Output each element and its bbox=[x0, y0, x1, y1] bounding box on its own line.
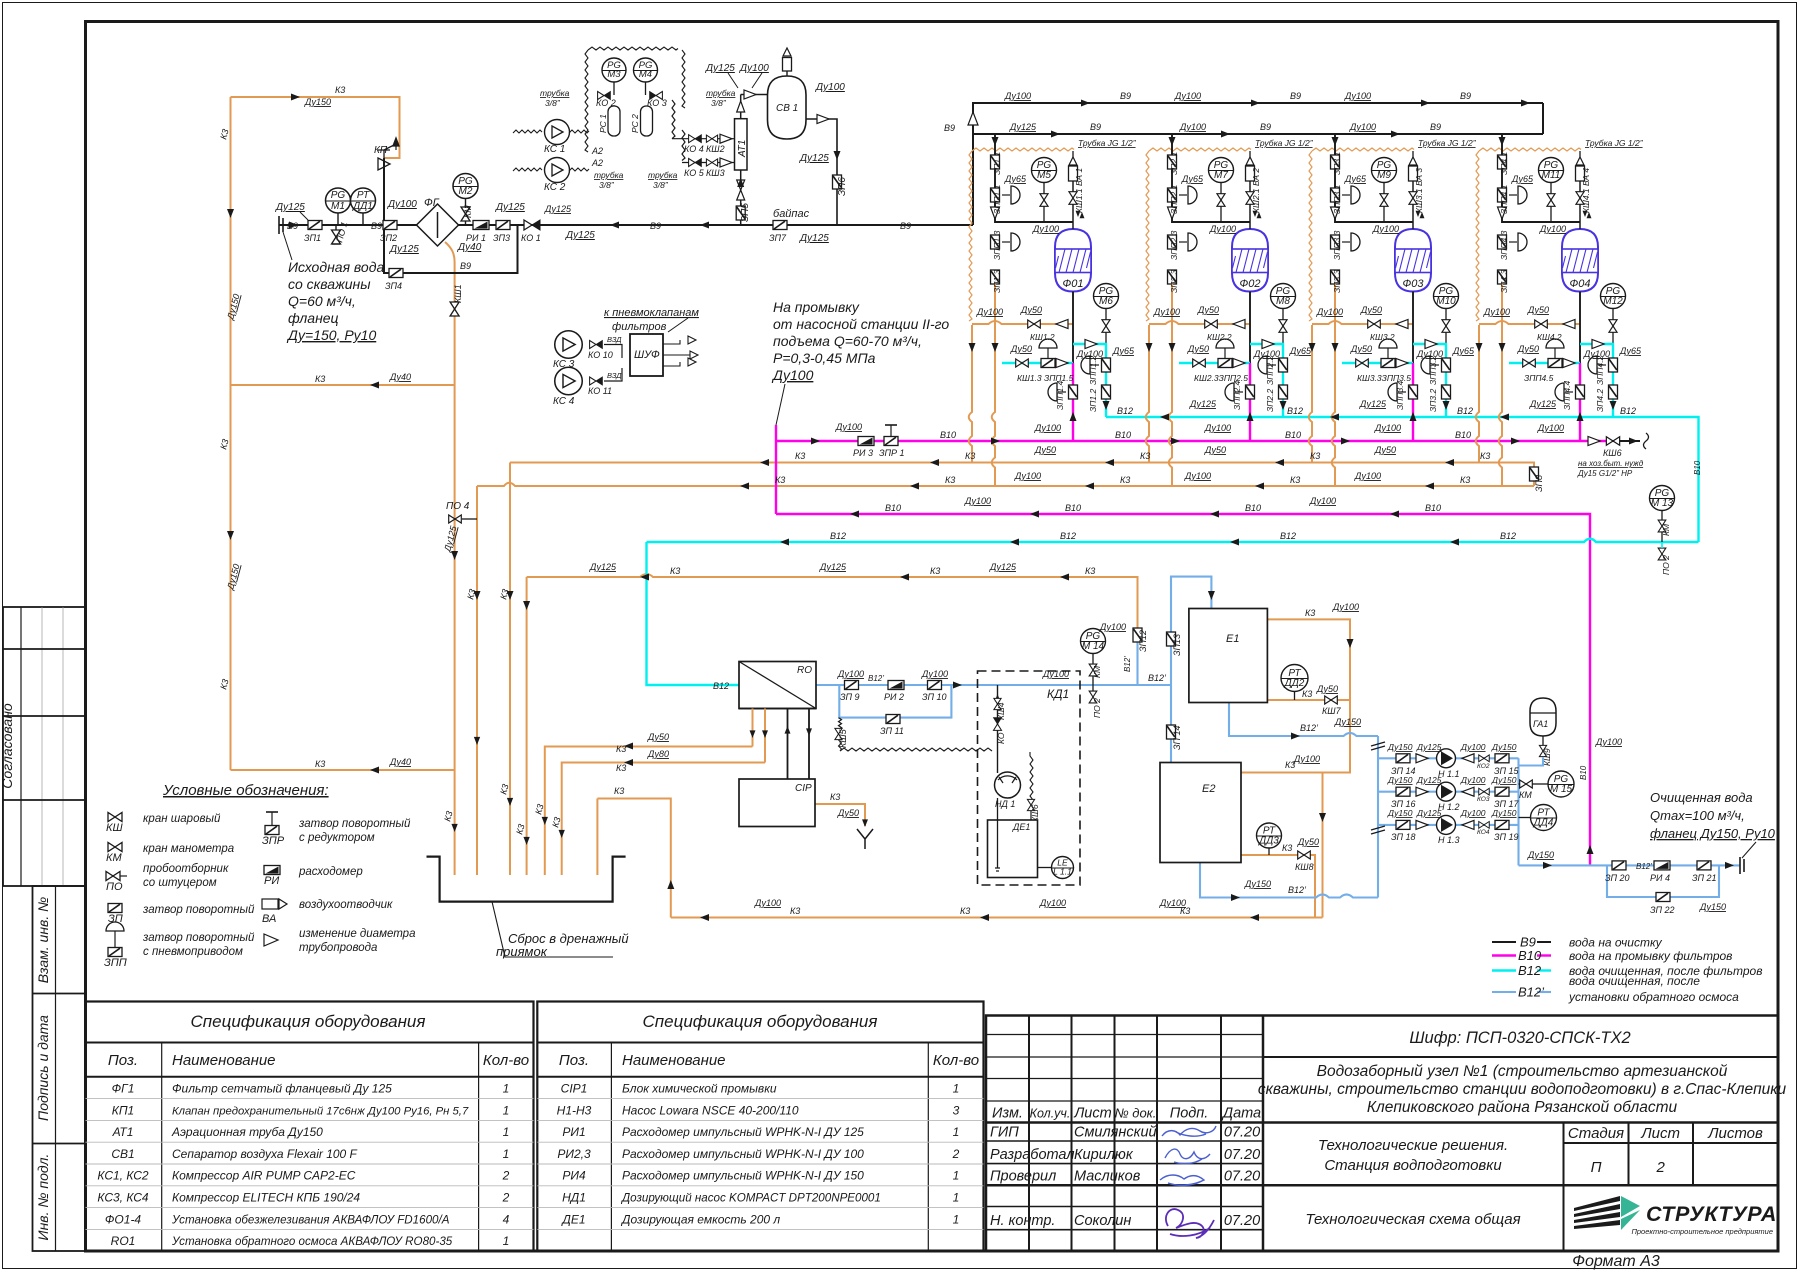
wire B12' ZP12 drop bbox=[1136, 641, 1138, 685]
svg-text:Ду100: Ду100 bbox=[964, 496, 991, 506]
svg-text:RO: RO bbox=[797, 665, 812, 676]
svg-text:К3: К3 bbox=[960, 906, 970, 916]
node outlet flange bbox=[1740, 857, 1744, 874]
svg-text:1: 1 bbox=[953, 1212, 960, 1226]
svg-text:ЗП7: ЗП7 bbox=[769, 233, 787, 243]
svg-text:В9: В9 bbox=[1260, 122, 1271, 132]
svg-text:Ду125: Ду125 bbox=[1529, 399, 1557, 409]
svg-text:В9: В9 bbox=[1430, 122, 1441, 132]
svg-text:Станция водподготовки: Станция водподготовки bbox=[1324, 1157, 1502, 1174]
svg-text:фланец Ду150, Ру10: фланец Ду150, Ру10 bbox=[1650, 826, 1776, 841]
wire B12' pump row 3 bbox=[1378, 824, 1519, 826]
svg-text:со скважины: со скважины bbox=[288, 276, 371, 292]
svg-text:ЗП1: ЗП1 bbox=[304, 233, 321, 243]
svg-text:Лист: Лист bbox=[1640, 1125, 1680, 1142]
svg-text:Ду50: Ду50 bbox=[1034, 445, 1056, 455]
svg-text:подъема Q=60-70 м³/ч,: подъема Q=60-70 м³/ч, bbox=[773, 333, 922, 349]
svg-text:КО 11: КО 11 bbox=[588, 386, 612, 396]
svg-text:В12: В12 bbox=[1457, 406, 1473, 416]
svg-text:ДД2: ДД2 bbox=[1284, 678, 1305, 689]
filter group Ф02 bbox=[1146, 134, 1314, 486]
svg-text:В12’: В12’ bbox=[868, 674, 884, 683]
svg-text:Ду100: Ду100 bbox=[1204, 423, 1231, 433]
svg-text:К3: К3 bbox=[930, 566, 940, 576]
svg-text:ЗП4: ЗП4 bbox=[385, 281, 402, 291]
valve ZP11 bbox=[886, 715, 900, 724]
svg-text:Компрессор AIR PUMP CAP2-ЕС: Компрессор AIR PUMP CAP2-ЕС bbox=[172, 1169, 356, 1183]
svg-text:М 14: М 14 bbox=[1082, 641, 1105, 652]
svg-text:трубопровода: трубопровода bbox=[299, 942, 377, 954]
svg-text:ЗПП1.3: ЗПП1.3 bbox=[992, 230, 1002, 260]
svg-text:В12’: В12’ bbox=[1123, 656, 1132, 672]
lower block bbox=[33, 886, 86, 1251]
svg-text:Е1: Е1 bbox=[1226, 633, 1239, 645]
svg-text:ПО 2: ПО 2 bbox=[1092, 698, 1102, 718]
svg-text:Инв. № подл.: Инв. № подл. bbox=[35, 1154, 51, 1241]
check valve KO1 bbox=[524, 220, 540, 230]
svg-text:1: 1 bbox=[503, 1082, 510, 1096]
svg-text:1: 1 bbox=[953, 1191, 960, 1205]
wire B9 header right connector bbox=[1542, 103, 1544, 134]
wire K3 Du125 y577 bbox=[527, 574, 1138, 629]
svg-text:К3: К3 bbox=[945, 475, 955, 485]
svg-text:Ду150: Ду150 bbox=[1699, 902, 1726, 912]
svg-text:ЗП1.2: ЗП1.2 bbox=[1088, 389, 1098, 412]
svg-text:КС1, КС2: КС1, КС2 bbox=[97, 1169, 149, 1183]
svg-text:Ду150: Ду150 bbox=[304, 97, 331, 107]
svg-text:трубка: трубка bbox=[648, 170, 678, 180]
svg-text:воздухоотводчик: воздухоотводчик bbox=[299, 899, 393, 911]
wire VZD links bbox=[604, 345, 622, 382]
svg-text:КО 5: КО 5 bbox=[684, 168, 705, 178]
gauge PG M2 bbox=[465, 198, 467, 208]
valve ZP15 bbox=[1495, 754, 1509, 763]
svg-text:трубка: трубка bbox=[706, 88, 736, 98]
svg-text:КШ2.1 ВА 2: КШ2.1 ВА 2 bbox=[1251, 168, 1261, 213]
svg-text:Насос Lowara NSCE 40-200/110: Насос Lowara NSCE 40-200/110 bbox=[622, 1103, 799, 1117]
svg-text:ГА1: ГА1 bbox=[1533, 719, 1548, 729]
wire arrows K3 y486 bbox=[740, 483, 1434, 490]
svg-text:КД1: КД1 bbox=[1047, 687, 1069, 701]
svg-text:Ду150: Ду150 bbox=[1244, 879, 1271, 889]
valve ZP9 bbox=[845, 681, 859, 690]
svg-text:РИ: РИ bbox=[264, 875, 279, 887]
svg-text:В9: В9 bbox=[900, 221, 911, 231]
pump row 1: valve ZP14 bbox=[1396, 754, 1410, 763]
wire B9 header lower bbox=[973, 133, 1543, 135]
svg-text:Ду100: Ду100 bbox=[1293, 754, 1320, 764]
sampler PO2 bbox=[1092, 685, 1094, 691]
svg-text:КС 1: КС 1 bbox=[544, 144, 565, 155]
svg-text:ПО 4: ПО 4 bbox=[446, 501, 470, 512]
svg-text:Расходомер импульсный WPHK-N-I: Расходомер импульсный WPHK-N-I ДУ 150 bbox=[622, 1169, 864, 1183]
svg-text:КШ: КШ bbox=[106, 822, 123, 834]
svg-text:В10: В10 bbox=[940, 430, 956, 440]
svg-text:Ду100: Ду100 bbox=[1460, 808, 1486, 818]
svg-text:К3: К3 bbox=[965, 451, 975, 461]
vessel PC1 bbox=[608, 106, 620, 136]
svg-text:Масликов: Масликов bbox=[1074, 1169, 1141, 1185]
valve KM bbox=[1089, 664, 1097, 676]
wire B9 inlet main bbox=[279, 224, 973, 226]
svg-text:Ду150: Ду150 bbox=[1527, 850, 1554, 860]
legend КМ bbox=[108, 843, 122, 852]
svg-text:Ду125: Ду125 bbox=[819, 562, 847, 572]
legend КШ bbox=[108, 813, 122, 822]
wire B12 cyan headers bbox=[647, 417, 1699, 685]
svg-text:НД1: НД1 bbox=[562, 1191, 586, 1205]
flowmeter RI3 bbox=[858, 437, 874, 446]
filter group Ф04 bbox=[1476, 134, 1644, 486]
flowmeter RI4 bbox=[1654, 861, 1670, 870]
gauge PG M4 bbox=[634, 58, 658, 82]
svg-text:РТ: РТ bbox=[357, 190, 370, 201]
gauge PG M14 bbox=[1081, 629, 1106, 654]
svg-text:CIP: CIP bbox=[795, 783, 812, 794]
svg-text:Спецификация оборудования: Спецификация оборудования bbox=[643, 1012, 878, 1031]
svg-text:ЗПП3.2: ЗПП3.2 bbox=[1428, 355, 1438, 385]
svg-text:В12: В12 bbox=[1287, 406, 1303, 416]
svg-text:кран манометра: кран манометра bbox=[143, 843, 234, 855]
svg-text:В9: В9 bbox=[371, 221, 382, 231]
aeration tube AT1 bbox=[735, 119, 748, 170]
level sensor LE L1.1 bbox=[1052, 857, 1074, 879]
svg-text:ЗПР 1: ЗПР 1 bbox=[879, 448, 905, 458]
svg-text:Ду150: Ду150 bbox=[1387, 742, 1413, 752]
svg-text:В12: В12 bbox=[830, 531, 846, 541]
svg-text:КШ1.1 ВА 1: КШ1.1 ВА 1 bbox=[1074, 168, 1084, 213]
wire dosing discharge bbox=[997, 685, 999, 773]
svg-text:ЗПП: ЗПП bbox=[104, 957, 127, 969]
wire K3 E2 right upper bbox=[1241, 773, 1323, 918]
svg-text:ФГ1: ФГ1 bbox=[112, 1082, 135, 1096]
svg-text:1: 1 bbox=[953, 1082, 960, 1096]
panel zigzag box bbox=[588, 47, 678, 50]
svg-text:Ду50: Ду50 bbox=[1374, 445, 1396, 455]
svg-text:В10: В10 bbox=[1693, 460, 1702, 475]
svg-text:Расходомер импульсный WPHK-N-I: Расходомер импульсный WPHK-N-I ДУ 100 bbox=[622, 1147, 864, 1161]
svg-text:ЗП3: ЗП3 bbox=[493, 233, 510, 243]
svg-text:В12: В12 bbox=[1518, 963, 1542, 978]
wire K3 drain vertical x510 bbox=[509, 463, 511, 876]
valve ZP14v bbox=[1167, 725, 1176, 739]
svg-text:ЗПП1.1: ЗПП1.1 bbox=[992, 184, 1002, 214]
svg-text:пробоотборник: пробоотборник bbox=[143, 863, 229, 875]
svg-text:Ду100: Ду100 bbox=[1354, 471, 1381, 481]
valve KSh4 bbox=[994, 698, 1001, 709]
valve ZP5 bbox=[736, 206, 745, 220]
check valve KO4p bbox=[1479, 822, 1490, 829]
svg-text:ШУФ: ШУФ bbox=[634, 349, 660, 361]
valve ZP20 bbox=[1612, 861, 1626, 870]
svg-text:В10: В10 bbox=[1065, 503, 1081, 513]
svg-text:В9: В9 bbox=[1460, 91, 1471, 101]
svg-text:фланец: фланец bbox=[288, 310, 339, 326]
valve KSh6 bbox=[1027, 799, 1034, 810]
svg-text:Технологические решения.: Технологические решения. bbox=[1318, 1137, 1508, 1154]
wire B12' RO outlet bbox=[816, 684, 1171, 686]
svg-text:Кирилюк: Кирилюк bbox=[1074, 1147, 1134, 1163]
svg-text:ДД4: ДД4 bbox=[1533, 818, 1554, 829]
svg-text:РИ 2: РИ 2 bbox=[884, 692, 904, 702]
svg-text:М 15: М 15 bbox=[1550, 784, 1573, 795]
svg-text:В9: В9 bbox=[1120, 91, 1131, 101]
wire chemical hose to ND1 bbox=[839, 740, 993, 751]
svg-text:затвор поворотный: затвор поворотный bbox=[142, 904, 255, 916]
svg-text:ЗПП2.3: ЗПП2.3 bbox=[1169, 230, 1179, 260]
svg-text:В9: В9 bbox=[944, 123, 955, 133]
svg-text:2: 2 bbox=[502, 1191, 510, 1205]
svg-text:М7: М7 bbox=[1214, 170, 1228, 181]
svg-text:Ду100: Ду100 bbox=[835, 422, 862, 432]
svg-text:К3: К3 bbox=[1310, 451, 1320, 461]
wire arrows K3 y577 bbox=[640, 574, 1069, 581]
valve ZP6 bbox=[833, 175, 842, 189]
svg-text:Технологическая схема общая: Технологическая схема общая bbox=[1305, 1211, 1520, 1228]
svg-text:ЗПП3.1: ЗПП3.1 bbox=[1332, 184, 1342, 214]
svg-text:М 13: М 13 bbox=[1651, 498, 1674, 509]
svg-text:В10: В10 bbox=[1115, 430, 1131, 440]
svg-text:М2: М2 bbox=[459, 186, 473, 197]
signatures bbox=[1160, 1126, 1216, 1185]
svg-text:ВЗД: ВЗД bbox=[607, 371, 622, 380]
svg-text:К3: К3 bbox=[1480, 451, 1490, 461]
gauge PG M3 bbox=[602, 58, 626, 82]
svg-text:Ду100: Ду100 bbox=[1332, 602, 1359, 612]
svg-text:Ду100: Ду100 bbox=[1537, 423, 1564, 433]
svg-text:Ду125: Ду125 bbox=[589, 562, 617, 572]
svg-text:В10: В10 bbox=[1245, 503, 1261, 513]
wire K3 drain vertical x477 bbox=[476, 486, 478, 875]
wire K3 E1 right upper bbox=[1267, 619, 1350, 700]
wire SV1 outlet bbox=[806, 119, 837, 225]
vessel PC2 bbox=[641, 106, 653, 136]
wire B9 riser to headers bbox=[973, 103, 1543, 225]
svg-text:Блок химической промывки: Блок химической промывки bbox=[622, 1082, 777, 1096]
svg-text:КШ8: КШ8 bbox=[1295, 862, 1314, 872]
svg-text:Ду125: Ду125 bbox=[1009, 122, 1037, 132]
pump row 2: valve ZP16 bbox=[1396, 787, 1410, 796]
wire B12' outlet line bbox=[1519, 864, 1741, 866]
svg-text:Ду40: Ду40 bbox=[389, 372, 411, 382]
wire hose KS1 bbox=[513, 130, 589, 133]
svg-text:ЗПП4.2: ЗПП4.2 bbox=[1595, 355, 1605, 385]
svg-text:Н. контр.: Н. контр. bbox=[990, 1213, 1055, 1229]
svg-text:Установка обратного осмоса АКВ: Установка обратного осмоса АКВАФЛОУ RO80… bbox=[171, 1235, 453, 1248]
wire K3 main drain y917 bbox=[671, 917, 1323, 919]
svg-text:Ду100: Ду100 bbox=[1039, 898, 1066, 908]
legend ВА bbox=[262, 899, 278, 909]
svg-text:Ф01: Ф01 bbox=[1063, 278, 1084, 290]
valve ZP21 bbox=[1697, 861, 1711, 870]
svg-text:Ду100: Ду100 bbox=[1004, 91, 1031, 101]
svg-text:АТ1: АТ1 bbox=[112, 1125, 134, 1139]
svg-text:Ду125: Ду125 bbox=[389, 244, 419, 255]
wire outputs bbox=[663, 340, 690, 366]
svg-text:К3: К3 bbox=[1302, 689, 1312, 699]
svg-text:2: 2 bbox=[952, 1147, 960, 1161]
svg-text:В12’: В12’ bbox=[1148, 673, 1167, 683]
svg-text:ЗПП4.1: ЗПП4.1 bbox=[1499, 184, 1509, 214]
svg-text:КШ1: КШ1 bbox=[453, 284, 463, 303]
svg-text:1: 1 bbox=[953, 1169, 960, 1183]
svg-text:КО 10: КО 10 bbox=[588, 350, 613, 360]
sampler PO2b bbox=[1658, 548, 1666, 560]
svg-text:Ду40: Ду40 bbox=[457, 242, 482, 253]
svg-text:PG: PG bbox=[331, 190, 346, 201]
wire RO to CIP links bbox=[753, 709, 766, 763]
svg-text:РИ4: РИ4 bbox=[562, 1169, 586, 1183]
pump row 3: valve ZP18 bbox=[1396, 820, 1410, 829]
wire arrows drain y917 bbox=[700, 914, 1259, 921]
wire B12' E2 feed bbox=[1170, 685, 1172, 763]
valve KSh8 bbox=[1298, 851, 1311, 859]
svg-text:затвор поворотный: затвор поворотный bbox=[298, 818, 411, 830]
valve KSh3 bbox=[706, 159, 717, 166]
svg-text:3/8”: 3/8” bbox=[711, 98, 727, 108]
svg-text:ЗПР: ЗПР bbox=[262, 835, 285, 847]
svg-text:Условные обозначения:: Условные обозначения: bbox=[162, 782, 329, 799]
svg-text:07.20: 07.20 bbox=[1224, 1125, 1260, 1141]
logo СТРУКТУРА bbox=[1574, 1196, 1777, 1236]
svg-text:Поз.: Поз. bbox=[559, 1052, 589, 1069]
svg-text:К3: К3 bbox=[1460, 475, 1470, 485]
svg-text:В10: В10 bbox=[1579, 765, 1588, 780]
svg-text:№ док.: № док. bbox=[1115, 1106, 1157, 1121]
wire K3 drain to pit bbox=[597, 799, 670, 918]
svg-text:КШ3: КШ3 bbox=[706, 168, 725, 178]
pump H1.3 bbox=[1437, 815, 1456, 834]
wire air to AT1 row1 bbox=[672, 100, 735, 139]
valve KSh9 bbox=[1542, 736, 1544, 745]
wire B12' pump discharge manifold bbox=[1517, 758, 1519, 865]
svg-text:Ду150: Ду150 bbox=[1491, 775, 1517, 785]
wire B12' outlet bypass ZP22 bbox=[1607, 865, 1719, 897]
svg-text:РС 2: РС 2 bbox=[630, 114, 640, 133]
svg-text:В12: В12 bbox=[1620, 406, 1636, 416]
svg-text:КМ: КМ bbox=[106, 852, 122, 864]
svg-text:Ду50: Ду50 bbox=[837, 808, 859, 818]
svg-text:Наименование: Наименование bbox=[622, 1052, 726, 1069]
svg-text:К3: К3 bbox=[775, 475, 785, 485]
wire AT1 top bbox=[740, 95, 742, 119]
svg-text:Ду100: Ду100 bbox=[815, 82, 845, 93]
svg-text:К3: К3 bbox=[795, 451, 805, 461]
svg-text:байпас: байпас bbox=[773, 208, 810, 220]
svg-text:Ду80: Ду80 bbox=[647, 749, 669, 759]
valve KM on FG bbox=[465, 220, 467, 225]
valve ZP22 bbox=[1656, 893, 1670, 902]
svg-text:ЗП 14: ЗП 14 bbox=[1172, 725, 1182, 750]
svg-text:Q=60 м³/ч,: Q=60 м³/ч, bbox=[288, 293, 356, 309]
svg-text:К3: К3 bbox=[1290, 475, 1300, 485]
svg-text:В9: В9 bbox=[287, 221, 298, 231]
svg-text:Кол-во: Кол-во bbox=[933, 1052, 979, 1069]
svg-text:РИ 4: РИ 4 bbox=[1650, 873, 1670, 883]
filter group Ф03 bbox=[1309, 134, 1477, 486]
svg-text:ЗП3.3: ЗП3.3 bbox=[1332, 270, 1342, 293]
svg-text:Ду15 G1/2” НР: Ду15 G1/2” НР bbox=[1577, 469, 1633, 478]
valve ZPR1 bbox=[884, 437, 898, 446]
safety valve KP1 bbox=[378, 138, 399, 170]
svg-text:4: 4 bbox=[503, 1212, 510, 1226]
check valve KO bbox=[994, 718, 1002, 731]
svg-text:P=0,3-0,45 МПа: P=0,3-0,45 МПа bbox=[773, 350, 876, 366]
svg-text:расходомер: расходомер bbox=[298, 866, 363, 878]
dosing tank DE1 bbox=[988, 820, 1038, 878]
svg-text:КШ1.3 ЗПП1.5: КШ1.3 ЗПП1.5 bbox=[1017, 373, 1074, 383]
svg-text:Компрессор ELITECH КПБ 190/24: Компрессор ELITECH КПБ 190/24 bbox=[172, 1191, 360, 1205]
svg-text:Н 1.3: Н 1.3 bbox=[1438, 835, 1460, 845]
svg-text:В12’: В12’ bbox=[1300, 723, 1319, 733]
compressor KS3 bbox=[555, 331, 583, 359]
dosing box KD1 dashed bbox=[978, 671, 1081, 885]
svg-text:КС3, КС4: КС3, КС4 bbox=[97, 1191, 149, 1205]
svg-text:КШ4.2: КШ4.2 bbox=[1537, 332, 1562, 342]
svg-text:Клапан предохранительный 17с6н: Клапан предохранительный 17с6нж Ду100 Ру… bbox=[172, 1105, 469, 1117]
svg-text:КО2: КО2 bbox=[1477, 763, 1490, 770]
svg-text:07.20: 07.20 bbox=[1224, 1147, 1260, 1163]
wire B12' light blue network bbox=[816, 577, 1740, 898]
wire K3 Du40 bottom bbox=[231, 769, 455, 771]
svg-text:Формат А3: Формат А3 bbox=[1572, 1253, 1660, 1270]
wire B12' pump row 2 bbox=[1378, 791, 1519, 793]
wire K3 E1 right lower KSh7 bbox=[1267, 700, 1350, 773]
svg-text:Согласовано: Согласовано bbox=[0, 703, 15, 789]
svg-text:ЗП4.3: ЗП4.3 bbox=[1499, 270, 1509, 293]
tank E2 bbox=[1160, 763, 1241, 863]
svg-text:ЗП2: ЗП2 bbox=[380, 233, 397, 243]
svg-text:Ду100: Ду100 bbox=[1595, 737, 1622, 747]
svg-text:Ду150: Ду150 bbox=[1491, 742, 1517, 752]
svg-text:3/8”: 3/8” bbox=[599, 180, 615, 190]
legend reducer bbox=[264, 934, 278, 946]
svg-text:вода очищенная, после: вода очищенная, после bbox=[1569, 974, 1700, 988]
wire K3 left riser Du150 bbox=[230, 97, 232, 770]
svg-text:ЗП2.3: ЗП2.3 bbox=[1169, 270, 1179, 293]
svg-text:ДЕ1: ДЕ1 bbox=[560, 1212, 585, 1226]
svg-text:ЗП5: ЗП5 bbox=[740, 203, 751, 222]
svg-text:М4: М4 bbox=[639, 69, 652, 80]
wire B12' GA1 stub bbox=[1519, 758, 1544, 766]
legend РИ bbox=[264, 866, 280, 875]
svg-text:К3: К3 bbox=[616, 763, 626, 773]
svg-text:ПО 2: ПО 2 bbox=[1661, 555, 1671, 575]
valve KSh2 bbox=[706, 135, 717, 142]
svg-text:Ду100: Ду100 bbox=[1099, 622, 1126, 632]
svg-text:Ду100: Ду100 bbox=[1460, 775, 1486, 785]
gauge RT DD1 bbox=[362, 213, 364, 225]
wire arrows B12 header bbox=[1160, 414, 1509, 421]
svg-text:АТ1: АТ1 bbox=[737, 140, 748, 158]
wire bypass ZP4 bbox=[384, 225, 518, 273]
svg-text:ЗПП3.3: ЗПП3.3 bbox=[1332, 230, 1342, 260]
svg-text:ЗП12: ЗП12 bbox=[1138, 630, 1148, 652]
svg-text:Ду125: Ду125 bbox=[275, 202, 305, 213]
strainer FG1 bbox=[417, 204, 459, 246]
wire hose KS2 bbox=[513, 168, 589, 171]
svg-text:КС 4: КС 4 bbox=[553, 396, 575, 407]
svg-text:Спецификация оборудования: Спецификация оборудования bbox=[191, 1012, 426, 1031]
svg-text:В10: В10 bbox=[1425, 503, 1441, 513]
svg-text:07.20: 07.20 bbox=[1224, 1213, 1260, 1229]
svg-text:Аэрационная труба Ду150: Аэрационная труба Ду150 bbox=[171, 1125, 323, 1139]
svg-text:Ду50: Ду50 bbox=[1316, 684, 1338, 694]
compressor KS2 bbox=[545, 158, 570, 183]
valve ZP10 bbox=[928, 681, 942, 690]
sampler PO4 bbox=[449, 515, 462, 523]
svg-text:Ду100: Ду100 bbox=[1460, 742, 1486, 752]
